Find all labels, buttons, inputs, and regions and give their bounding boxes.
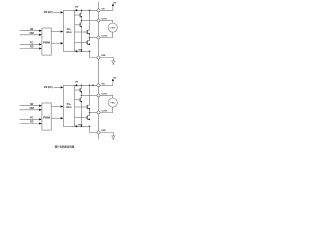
wire VM (HV) into pre-drive	[54, 11, 64, 13]
wire VM (HV) into pre-drive	[54, 86, 64, 88]
wire PWM to pre-drive (upper)	[51, 105, 63, 107]
wire OUT1 to motor	[100, 95, 113, 98]
wire PWM to pre-drive (lower)	[51, 42, 63, 44]
PWM block U2a	[42, 103, 51, 130]
svg-text:VSP: VSP	[29, 33, 34, 35]
wire VM pin to supply	[100, 78, 114, 85]
wire VM rail	[75, 84, 97, 86]
wire Q6 source to ground rail	[81, 102, 83, 127]
svg-text:图6 电机驱动电路: 图6 电机驱动电路	[55, 144, 75, 148]
wire VM pin to supply	[100, 3, 114, 10]
pin RNF	[97, 131, 100, 134]
input line VSP (channel 1)	[20, 34, 42, 36]
wire PWM to pre-drive (upper)	[51, 30, 63, 32]
node ground rail Q2	[81, 51, 83, 53]
node rail-Q1 junction	[81, 10, 83, 12]
svg-text:RNF: RNF	[78, 124, 83, 126]
wire OUT1 to motor	[100, 20, 113, 23]
pre-drive block U2b	[63, 86, 74, 127]
wire ground rail	[75, 125, 90, 127]
wire ground rail	[75, 50, 90, 52]
pin OUT2	[97, 36, 100, 39]
transistor Q2	[79, 20, 82, 27]
svg-text:OUT2: OUT2	[101, 110, 107, 112]
svg-text:SD: SD	[30, 29, 34, 31]
transistor Q6 gate wire	[75, 99, 80, 101]
pin OUT1	[97, 94, 100, 97]
svg-text:OUT1: OUT1	[101, 18, 107, 20]
pre-drive block U1b	[63, 11, 74, 52]
wire IC boundary bus	[98, 2, 100, 140]
transistor Q3	[87, 10, 90, 34]
svg-text:FAN: FAN	[111, 101, 116, 104]
input line SD (channel 2)	[20, 105, 42, 107]
transistor Q5 gate wire	[75, 89, 80, 91]
svg-text:VM (HV): VM (HV)	[44, 87, 53, 89]
svg-text:FG: FG	[30, 118, 33, 120]
svg-text:VM: VM	[113, 78, 116, 80]
wire Q2 source to ground rail	[81, 27, 83, 52]
wire OUT1 node	[82, 94, 97, 96]
node ground rail Q6	[81, 126, 83, 128]
motor M2	[108, 98, 117, 107]
wire RNF pin to ground	[100, 58, 113, 61]
ground	[112, 61, 115, 65]
transistor Q1 gate wire	[75, 14, 80, 16]
wire rail to RNF pin	[90, 51, 97, 57]
svg-text:VM: VM	[75, 82, 78, 84]
wire OUT2 node	[90, 37, 97, 39]
wire motor to OUT2	[100, 107, 113, 112]
transistor Q4	[87, 38, 90, 46]
svg-text:Pre-: Pre-	[67, 29, 72, 31]
pin VM	[97, 9, 100, 12]
input line FG (channel 1)	[20, 43, 42, 45]
svg-text:Pre-: Pre-	[67, 104, 72, 106]
svg-text:drive: drive	[66, 107, 72, 109]
wire Q7 drain	[89, 109, 91, 113]
svg-text:PWM: PWM	[43, 41, 51, 45]
transistor Q2 gate wire	[75, 24, 80, 26]
wire PWM to pre-drive (lower)	[51, 117, 63, 119]
transistor Q4 gate wire	[75, 42, 87, 44]
pin OUT2	[97, 111, 100, 114]
node OUT1 tap	[81, 95, 83, 97]
pin VM	[97, 84, 100, 87]
svg-text:OUT2: OUT2	[101, 35, 107, 37]
svg-text:VSP: VSP	[29, 108, 34, 110]
wire motor to OUT2	[100, 32, 113, 37]
transistor Q1	[79, 10, 82, 20]
svg-text:OUT1: OUT1	[101, 93, 107, 95]
input line SD (channel 1)	[20, 30, 42, 32]
wire Q4 drain up	[89, 38, 91, 41]
wire RNF pin to ground	[100, 133, 113, 136]
svg-text:PWM: PWM	[43, 116, 51, 120]
transistor Q8 gate wire	[75, 117, 87, 119]
svg-text:VM (HV): VM (HV)	[44, 12, 53, 14]
svg-text:VM: VM	[75, 7, 78, 9]
pin OUT1	[97, 19, 100, 22]
transistor Q3 gate wire	[75, 31, 87, 33]
wire rail to RNF pin	[90, 126, 97, 132]
wire OUT1 node	[82, 19, 97, 21]
transistor Q7	[87, 85, 90, 109]
wire OUT2 node	[90, 112, 97, 114]
input line RD (channel 2)	[20, 122, 42, 124]
transistor Q8	[87, 113, 90, 121]
motor M1	[108, 23, 117, 32]
input line FG (channel 2)	[20, 118, 42, 120]
svg-text:RNF: RNF	[101, 55, 106, 57]
input line VSP (channel 2)	[20, 109, 42, 111]
svg-text:SD: SD	[30, 104, 34, 106]
label Pre-drive	[66, 29, 72, 34]
svg-text:RNF: RNF	[78, 49, 83, 51]
node ground rail Q4	[89, 51, 91, 53]
node OUT2 tap	[89, 112, 91, 114]
node on channel-2 VM rail	[92, 85, 94, 87]
node ground rail Q8	[89, 126, 91, 128]
wire VM rail	[75, 9, 97, 11]
node rail-Q3 junction	[89, 10, 91, 12]
input line RD (channel 1)	[20, 47, 42, 49]
svg-text:FG: FG	[30, 43, 33, 45]
svg-text:RNF: RNF	[101, 130, 106, 132]
transistor Q7 gate wire	[75, 106, 87, 108]
pin RNF	[97, 56, 100, 59]
svg-text:drive: drive	[66, 32, 72, 34]
svg-text:RD: RD	[30, 47, 34, 49]
ground	[112, 136, 115, 140]
PWM block U1a	[42, 28, 51, 55]
svg-text:RD: RD	[30, 122, 34, 124]
label Pre-drive	[66, 104, 72, 109]
node rail-Q5 junction	[81, 85, 83, 87]
node OUT2 tap	[89, 37, 91, 39]
wire Q8 drain up	[89, 113, 91, 116]
transistor Q6	[79, 95, 82, 102]
svg-text:VM: VM	[113, 3, 116, 5]
node rail-Q7 junction	[89, 85, 91, 87]
node OUT1 tap	[81, 20, 83, 22]
wire Q3 drain	[89, 34, 91, 38]
transistor Q5	[79, 85, 82, 95]
svg-text:FAN: FAN	[111, 26, 116, 29]
